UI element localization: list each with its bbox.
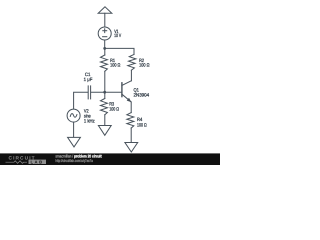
- ground V2: [68, 137, 81, 147]
- wire emitter to R4: [130, 102, 132, 113]
- CircuitLab logo: [6, 155, 47, 164]
- svg-text:R4: R4: [137, 117, 142, 123]
- svg-text:10 V: 10 V: [114, 33, 122, 39]
- resistor R3: [101, 99, 108, 115]
- footer bar: [0, 153, 220, 165]
- VCC arrow: [98, 7, 112, 14]
- transistor Q1: [121, 83, 123, 97]
- wire R2 to collector: [130, 70, 132, 81]
- wire R3 to ground: [104, 115, 106, 126]
- svg-text:Q1: Q1: [134, 88, 140, 94]
- svg-text:100 Ω: 100 Ω: [139, 63, 150, 69]
- svg-text:1 kHz: 1 kHz: [84, 118, 95, 124]
- node junction V1/R1/R2: [103, 47, 106, 50]
- ground R4: [125, 143, 138, 153]
- wire C1 to base: [91, 91, 122, 93]
- wire V2 to ground: [73, 122, 75, 137]
- capacitor C1: [87, 86, 89, 99]
- svg-text:100 Ω: 100 Ω: [109, 106, 119, 112]
- ground R3: [98, 126, 111, 136]
- source V1: [98, 27, 111, 40]
- svg-text:100 Ω: 100 Ω: [137, 122, 147, 128]
- wire VCC to V1: [104, 13, 106, 27]
- source V2: [67, 109, 80, 122]
- svg-text:1 μF: 1 μF: [84, 77, 93, 83]
- wire V2 to C1: [74, 92, 88, 109]
- resistor R4: [127, 113, 134, 128]
- svg-text:http://circuitlab.com/c/q7aa7a: http://circuitlab.com/c/q7aa7a: [55, 158, 93, 163]
- resistor R1: [104, 48, 106, 55]
- node junction C1/R1/R3/base: [103, 91, 106, 94]
- wire R4 to ground: [130, 128, 132, 142]
- svg-text:LAB: LAB: [31, 159, 44, 164]
- wire V1 to node: [104, 40, 106, 48]
- svg-text:100 Ω: 100 Ω: [110, 63, 121, 69]
- resistor R2: [128, 54, 136, 70]
- wire R1 to node B: [104, 71, 106, 98]
- wire top horizontal: [105, 48, 134, 54]
- svg-text:2N3904: 2N3904: [134, 93, 150, 99]
